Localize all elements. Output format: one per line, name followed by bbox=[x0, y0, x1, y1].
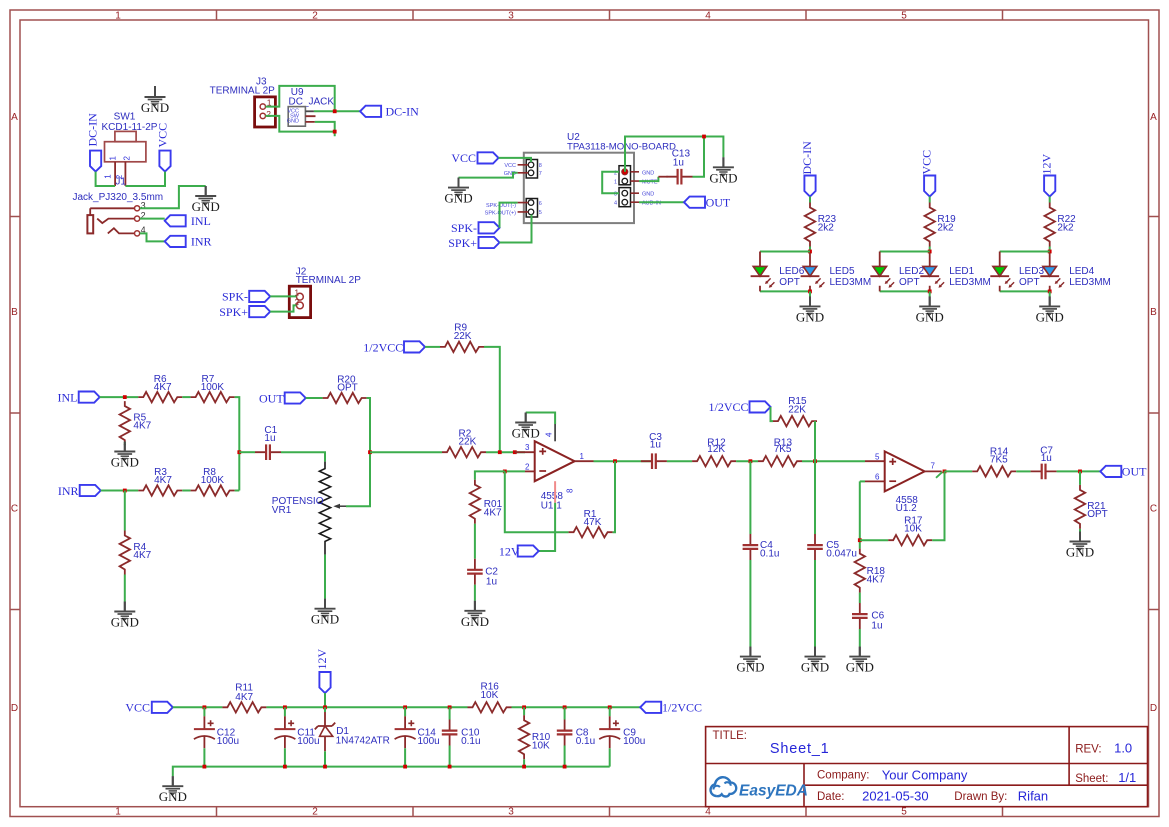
svg-text:2: 2 bbox=[266, 109, 271, 119]
ground GND (LED branch 3) bbox=[1036, 296, 1064, 324]
svg-text:INL: INL bbox=[191, 214, 211, 228]
wire LED parallel rails (branch 1) bbox=[760, 252, 810, 292]
potentiometer VR1 wiper arrow bbox=[333, 504, 346, 509]
svg-text:1: 1 bbox=[614, 180, 617, 186]
svg-text:1u: 1u bbox=[650, 440, 661, 451]
resistor R21 bbox=[1075, 485, 1108, 529]
LED leads (branch 1) bbox=[760, 252, 810, 292]
net flag OUT (feedback input) bbox=[259, 391, 306, 405]
op-amp U1.2 pin6 stub bbox=[865, 480, 885, 482]
svg-text:TERMINAL 2P: TERMINAL 2P bbox=[210, 86, 276, 97]
svg-text:100K: 100K bbox=[201, 382, 225, 393]
switch SW1 pin numbers 1 2 (rotated) bbox=[104, 174, 124, 179]
wire R21 to GND bbox=[1079, 529, 1081, 532]
svg-text:OPT: OPT bbox=[1019, 277, 1040, 288]
svg-text:REV:: REV: bbox=[1075, 743, 1101, 755]
connector U9 body bbox=[288, 107, 305, 127]
svg-text:LED4: LED4 bbox=[1069, 266, 1094, 277]
ground GND (U2 left) bbox=[444, 178, 472, 206]
resistor R6 bbox=[138, 374, 182, 403]
svg-text:4K7: 4K7 bbox=[133, 421, 151, 432]
svg-text:INR: INR bbox=[191, 235, 212, 249]
net flag OUT (U2 AUD-IN) bbox=[684, 195, 731, 209]
resistor R15 bbox=[773, 396, 817, 427]
svg-text:TERMINAL 2P: TERMINAL 2P bbox=[296, 275, 362, 286]
net flag INL bbox=[58, 390, 100, 404]
svg-text:GND: GND bbox=[287, 119, 299, 125]
LED LED6 (green) bbox=[751, 266, 805, 288]
svg-text:C: C bbox=[11, 504, 18, 515]
connector U9 pins bbox=[305, 110, 314, 112]
connector J2 pad 1 bbox=[297, 293, 304, 300]
svg-text:4K7: 4K7 bbox=[133, 550, 151, 561]
capacitor C3 bbox=[641, 432, 667, 469]
wire R3 to R8 bbox=[182, 490, 190, 492]
svg-text:B: B bbox=[1150, 307, 1157, 318]
svg-text:SPK+: SPK+ bbox=[219, 305, 248, 319]
wire C1 node to C1 bbox=[239, 451, 255, 453]
switch SW1 pins bbox=[115, 162, 125, 186]
svg-text:DC-IN: DC-IN bbox=[386, 105, 420, 119]
op-amp U1.2 pin numbers 5 6 7 bbox=[875, 452, 880, 481]
wire C2 to GND bbox=[474, 585, 476, 601]
wire C13 to top rail bbox=[693, 137, 705, 177]
wire LED node to GND (branch 1) bbox=[809, 291, 811, 296]
resistor R13 bbox=[758, 437, 802, 466]
ground GND (LED branch 1) bbox=[796, 296, 824, 324]
wire pin4 to GND bbox=[526, 413, 555, 425]
svg-text:7: 7 bbox=[931, 461, 936, 470]
capacitor C7 bbox=[1031, 445, 1057, 479]
ground GND (above SW1) bbox=[141, 86, 169, 115]
module U2 header pins 2/1 bbox=[619, 166, 631, 185]
net flag VCC (supply) bbox=[125, 701, 172, 715]
svg-text:2021-05-30: 2021-05-30 bbox=[862, 789, 929, 804]
wire pin8 to 12V bbox=[539, 503, 555, 551]
svg-text:U1.1: U1.1 bbox=[541, 500, 563, 511]
svg-text:1/2VCC: 1/2VCC bbox=[363, 340, 403, 354]
op-amp U1.1 pin1 stub bbox=[575, 460, 594, 462]
junction (U1.1 output node) bbox=[613, 459, 617, 463]
capacitor C8 bbox=[557, 707, 595, 747]
svg-text:22K: 22K bbox=[788, 405, 806, 416]
svg-text:2: 2 bbox=[312, 807, 318, 818]
svg-text:OPT: OPT bbox=[1087, 509, 1108, 520]
module U2 pin labels GND MUTE GND AUD-IN bbox=[642, 170, 661, 206]
svg-text:Rifan: Rifan bbox=[1018, 789, 1048, 804]
svg-text:VCC: VCC bbox=[451, 151, 476, 165]
resistor R14 bbox=[972, 447, 1016, 477]
jack J1 pin3 pad bbox=[135, 206, 140, 211]
zener diode D1 bbox=[315, 707, 390, 751]
net flag VCC (LED branch) bbox=[920, 150, 936, 197]
module U2 header pins 8/7 bbox=[518, 160, 538, 179]
svg-text:SPK-: SPK- bbox=[451, 221, 477, 235]
connector J3 pad 2 bbox=[260, 113, 265, 118]
svg-text:10K: 10K bbox=[481, 690, 499, 701]
net flag DC-IN (U9) bbox=[360, 105, 419, 119]
net flag SPK- (J2) bbox=[222, 290, 270, 304]
junction (LED3 top node) bbox=[1048, 250, 1052, 254]
capacitor C1 bbox=[255, 425, 281, 460]
net flag SPK+ (U2) bbox=[448, 236, 499, 250]
svg-text:OPT: OPT bbox=[779, 277, 800, 288]
module U2 body bbox=[524, 153, 634, 223]
svg-text:D: D bbox=[11, 703, 18, 714]
wire LED parallel rails (branch 2) bbox=[880, 252, 930, 292]
capacitor C4 bbox=[743, 534, 780, 560]
wire J3 pin1 to junction bbox=[266, 86, 335, 111]
capacitor C10 bbox=[442, 707, 481, 747]
wire U2 MUTE to C13 bbox=[639, 177, 658, 181]
net flag DC-IN (LED branch) bbox=[800, 141, 816, 197]
svg-text:2: 2 bbox=[123, 156, 132, 161]
wire R20 to wiper node bbox=[346, 398, 370, 506]
svg-text:8: 8 bbox=[539, 163, 542, 169]
svg-text:J1: J1 bbox=[115, 177, 126, 188]
svg-text:2: 2 bbox=[525, 462, 530, 471]
wire U2 AUD-IN to OUT flag bbox=[639, 201, 684, 203]
LED leads (branch 2) bbox=[880, 252, 930, 292]
svg-text:22K: 22K bbox=[454, 331, 472, 342]
resistor R8 bbox=[191, 467, 235, 495]
svg-text:12V: 12V bbox=[1040, 154, 1054, 175]
svg-text:TITLE:: TITLE: bbox=[713, 730, 748, 742]
op-amp U1.1 pin8 bbox=[554, 481, 556, 503]
wire output to R14 bbox=[945, 470, 973, 472]
ground GND (R4) bbox=[111, 602, 139, 630]
wire VCC to R19 bbox=[929, 197, 931, 203]
junction (INR node) bbox=[123, 489, 127, 493]
svg-text:10K: 10K bbox=[532, 741, 550, 752]
svg-text:LED3MM: LED3MM bbox=[830, 277, 872, 288]
capacitor C14 bbox=[395, 707, 440, 748]
svg-text:B: B bbox=[11, 307, 18, 318]
junction (U1.2 output node) bbox=[943, 470, 947, 474]
svg-text:OUT: OUT bbox=[259, 391, 284, 405]
EasyEDA logo bbox=[711, 777, 808, 799]
resistor R17 bbox=[888, 516, 932, 546]
ground GND (LED branch 2) bbox=[916, 296, 944, 324]
op-amp U1.1 pin2 stub bbox=[525, 470, 535, 472]
wire SPK+ to U2 pin5 bbox=[500, 215, 532, 243]
wire C6 to GND bbox=[859, 629, 861, 647]
junction (pin2 node) bbox=[503, 470, 507, 474]
svg-text:7: 7 bbox=[539, 171, 542, 177]
svg-text:GND: GND bbox=[642, 170, 654, 176]
ground GND (supply) bbox=[159, 776, 187, 804]
wire R6 to R7 bbox=[182, 396, 190, 398]
svg-text:VCC: VCC bbox=[156, 123, 170, 148]
net flag INL (jack) bbox=[165, 214, 211, 228]
wire C4 to GND bbox=[749, 560, 751, 647]
svg-text:1: 1 bbox=[104, 174, 113, 179]
wire C9 to bottom rail bbox=[609, 748, 611, 766]
wire R19 to LED node bbox=[929, 247, 931, 252]
svg-text:OPT: OPT bbox=[899, 277, 920, 288]
connector J3 pin numbers bbox=[266, 98, 272, 120]
svg-text:Jack_PJ320_3.5mm: Jack_PJ320_3.5mm bbox=[73, 192, 164, 203]
svg-text:0.1u: 0.1u bbox=[461, 736, 480, 747]
connector J2 pin numbers bbox=[294, 287, 299, 307]
svg-text:VR1: VR1 bbox=[272, 505, 292, 516]
resistor R3 bbox=[138, 467, 182, 495]
capacitor C5 bbox=[807, 534, 857, 560]
wire SW1 pin2 to VCC bbox=[125, 172, 165, 186]
svg-text:3: 3 bbox=[525, 443, 530, 452]
module U2 pin numbers 6 5 bbox=[539, 201, 542, 216]
junction (LED3 bottom node) bbox=[1048, 290, 1052, 294]
svg-text:VCC: VCC bbox=[125, 701, 150, 715]
svg-text:SW1: SW1 bbox=[114, 112, 136, 123]
wire node to R17 bbox=[860, 539, 888, 541]
wire R7 to C1 node bbox=[235, 397, 240, 490]
svg-text:DC-IN: DC-IN bbox=[86, 113, 100, 147]
resistor R11 bbox=[222, 683, 266, 713]
wire C12 to bottom rail bbox=[203, 748, 205, 766]
wire U9 GND pin bbox=[315, 122, 335, 132]
svg-text:D: D bbox=[1150, 703, 1157, 714]
svg-text:5: 5 bbox=[539, 210, 542, 216]
svg-text:1N4742ATR: 1N4742ATR bbox=[336, 736, 390, 747]
wire R14 to C7 bbox=[1016, 470, 1030, 472]
net flag OUT (final output) bbox=[1100, 465, 1147, 479]
svg-text:1u: 1u bbox=[1041, 453, 1052, 464]
svg-text:100u: 100u bbox=[297, 736, 319, 747]
junction (R9 / R2 node) bbox=[498, 450, 502, 454]
wire bottom rail bbox=[173, 767, 610, 777]
ground GND (U2 right) bbox=[709, 157, 737, 185]
svg-text:6: 6 bbox=[539, 201, 542, 207]
svg-text:LED3MM: LED3MM bbox=[949, 277, 991, 288]
junction (pin3 node) bbox=[513, 450, 517, 454]
op-amp U1.1 bbox=[535, 441, 575, 511]
resistor R20 bbox=[323, 375, 367, 403]
net flag 1/2VCC (supply) bbox=[640, 701, 702, 715]
wire C8 to bottom rail bbox=[564, 746, 566, 767]
connector J2 body bbox=[289, 286, 310, 317]
svg-text:2k2: 2k2 bbox=[937, 223, 954, 234]
op-amp U1.2 bbox=[885, 451, 925, 514]
svg-text:2k2: 2k2 bbox=[1057, 223, 1074, 234]
ground GND (C4) bbox=[736, 647, 764, 675]
wire LED node to GND (branch 3) bbox=[1049, 291, 1051, 296]
svg-text:2k2: 2k2 bbox=[818, 223, 835, 234]
svg-text:5: 5 bbox=[875, 452, 880, 461]
jack J1 tip contact pin2 bbox=[97, 219, 134, 224]
wire pin2 node to op-amp bbox=[505, 470, 525, 472]
LED leads (branch 3) bbox=[1000, 252, 1050, 292]
wire OUT to R20 bbox=[306, 397, 323, 399]
svg-text:1: 1 bbox=[115, 11, 121, 22]
op-amp U1.2 pin7 stub bbox=[925, 470, 942, 472]
svg-text:SPK+: SPK+ bbox=[448, 236, 477, 250]
wire LED node to GND (branch 2) bbox=[929, 291, 931, 296]
wire DC-IN to SW1 pin1 bbox=[96, 172, 116, 186]
wire U2 pin2 jumper to pin3 bbox=[602, 172, 619, 193]
junction (INL node) bbox=[123, 395, 127, 399]
LED LED5 (blue) bbox=[801, 266, 872, 288]
wire C4 node down bbox=[749, 461, 751, 534]
net flag DC-IN (at SW1) bbox=[86, 113, 102, 172]
wire LED parallel rails (branch 3) bbox=[1000, 252, 1050, 292]
net flag 1/2VCC (R9) bbox=[363, 340, 425, 354]
wire U9 VCC pin to DC-IN flag bbox=[314, 110, 360, 112]
svg-text:6: 6 bbox=[875, 473, 880, 482]
svg-text:2: 2 bbox=[312, 11, 318, 22]
module U2 right pin stubs bbox=[631, 172, 640, 202]
svg-text:Date:: Date: bbox=[817, 791, 845, 803]
junction (R2 input node) bbox=[368, 450, 372, 454]
wire DC-IN to R23 bbox=[809, 197, 811, 203]
svg-text:4K7: 4K7 bbox=[154, 475, 172, 486]
wire R23 to LED node bbox=[809, 247, 811, 252]
svg-text:INL: INL bbox=[58, 390, 78, 404]
wire D1 to bottom rail bbox=[324, 751, 326, 766]
ground GND (R21) bbox=[1066, 532, 1094, 560]
svg-text:4: 4 bbox=[614, 201, 617, 207]
net flag 12V (LED branch) bbox=[1040, 154, 1056, 197]
wire SPK- to U2 pin6 bbox=[500, 203, 518, 228]
svg-text:SPK-OUT(-): SPK-OUT(-) bbox=[486, 203, 516, 209]
module U2 pin labels SPK-OUT bbox=[485, 203, 516, 217]
module U2 pin labels VCC GND bbox=[504, 163, 516, 177]
svg-text:0.1u: 0.1u bbox=[576, 736, 595, 747]
capacitor C12 bbox=[194, 707, 239, 748]
resistor R10 bbox=[519, 707, 551, 759]
resistor R19 bbox=[925, 203, 957, 247]
ground GND (R5) bbox=[111, 442, 139, 470]
net flag 1/2VCC (R15) bbox=[708, 400, 770, 414]
svg-text:4: 4 bbox=[545, 432, 554, 437]
wire VR1 to GND bbox=[324, 555, 326, 599]
svg-text:8: 8 bbox=[566, 488, 575, 493]
ground GND (U1.1 pin4) bbox=[512, 413, 540, 441]
resistor R23 bbox=[805, 203, 837, 247]
svg-text:0.1u: 0.1u bbox=[760, 548, 779, 559]
svg-text:3: 3 bbox=[508, 807, 514, 818]
jack J1 sleeve and pin3 line bbox=[87, 208, 134, 233]
junction (LED1 bottom node) bbox=[808, 290, 812, 294]
svg-text:12V: 12V bbox=[315, 649, 329, 670]
op-amp U1.2 pin5 stub bbox=[865, 460, 885, 462]
op-amp U1.1 pin numbers 3 2 1 bbox=[525, 443, 530, 472]
svg-text:EasyEDA: EasyEDA bbox=[739, 783, 808, 800]
wire R1 to output node bbox=[613, 461, 615, 532]
wire 1/2VCC to R15 bbox=[771, 407, 774, 421]
wire pin6 node to op-amp bbox=[860, 480, 865, 482]
svg-text:1u: 1u bbox=[673, 158, 684, 169]
wire 12V to R22 bbox=[1049, 197, 1051, 203]
wire output node to R21 bbox=[1079, 471, 1081, 485]
net flag VCC (at SW1) bbox=[156, 123, 171, 172]
svg-text:VCC: VCC bbox=[920, 150, 934, 175]
capacitor C13 bbox=[667, 149, 693, 185]
wire INR to node bbox=[101, 490, 139, 492]
svg-text:VCC: VCC bbox=[504, 163, 516, 169]
junction (C5 node) bbox=[813, 459, 817, 463]
wire C10 to bottom rail bbox=[449, 746, 451, 767]
wire R13 to C5 node and U1.2 pin5 bbox=[802, 460, 865, 462]
svg-text:100u: 100u bbox=[217, 736, 239, 747]
jack J1 pin4 pad bbox=[135, 231, 140, 236]
wire R9 to pin3 node bbox=[484, 347, 500, 452]
svg-text:1: 1 bbox=[109, 156, 118, 161]
wire U2 pin7 to GND bbox=[459, 173, 518, 178]
ground GND (VR1) bbox=[311, 599, 339, 627]
svg-text:4K7: 4K7 bbox=[484, 508, 502, 519]
wire J3 pin2 to U9 GND bbox=[266, 116, 335, 136]
wire SPK- to J2 pin1 bbox=[270, 295, 296, 297]
svg-text:Your Company: Your Company bbox=[882, 767, 968, 782]
svg-text:7K5: 7K5 bbox=[990, 455, 1008, 466]
svg-text:OUT: OUT bbox=[1122, 465, 1147, 479]
module U2 pin numbers 8 7 bbox=[539, 163, 542, 177]
connector J3 body bbox=[255, 97, 276, 127]
jack J1 pin2 pad bbox=[135, 216, 140, 221]
junction (LED2 top node) bbox=[928, 250, 932, 254]
svg-text:5: 5 bbox=[901, 807, 907, 818]
svg-text:0.047u: 0.047u bbox=[826, 548, 857, 559]
svg-text:OUT: OUT bbox=[706, 195, 731, 209]
wire R2 to op-amp pin3 bbox=[486, 451, 525, 453]
capacitor C2 bbox=[467, 559, 498, 588]
svg-text:12V: 12V bbox=[499, 544, 520, 558]
resistor R01 bbox=[470, 471, 505, 523]
resistor R18 bbox=[855, 549, 886, 593]
capacitor C9 bbox=[599, 707, 645, 748]
net flag 12V (U1.1) bbox=[499, 544, 539, 558]
wire top rail middle bbox=[266, 706, 467, 708]
svg-text:4: 4 bbox=[705, 11, 711, 22]
resistor R1 bbox=[569, 509, 613, 538]
wire R22 to LED node bbox=[1049, 247, 1051, 252]
ground GND (C6) bbox=[846, 647, 874, 675]
capacitor C6 bbox=[852, 603, 885, 632]
svg-text:U1.2: U1.2 bbox=[896, 503, 918, 514]
wire pin7 kink bbox=[936, 472, 943, 478]
wire C5 to GND bbox=[814, 560, 816, 647]
svg-text:Sheet_1: Sheet_1 bbox=[770, 741, 830, 757]
svg-text:22K: 22K bbox=[459, 437, 477, 448]
net flag INR (jack) bbox=[165, 235, 212, 249]
resistor R4 bbox=[120, 531, 152, 575]
svg-text:A: A bbox=[11, 112, 18, 123]
connector U9 pin names bbox=[287, 109, 300, 125]
junction (LED1 top node) bbox=[808, 250, 812, 254]
net flag 12V (supply) bbox=[315, 649, 330, 694]
net flag SPK- (U2) bbox=[451, 221, 500, 235]
ground GND (jack) bbox=[192, 186, 220, 214]
junction (C1 node) bbox=[237, 450, 241, 454]
resistor R16 bbox=[468, 682, 512, 713]
ground GND (C5) bbox=[801, 647, 829, 675]
ground GND (C2) bbox=[461, 601, 489, 629]
wire VCC to U2 pin8 bbox=[499, 158, 532, 162]
connector J2 pad 2 bbox=[297, 302, 304, 309]
op-amp U1.1 pin3 stub bbox=[515, 451, 535, 453]
wire jack pin3 to GND bbox=[140, 186, 206, 208]
LED LED1 (blue) bbox=[920, 266, 991, 288]
wire top rail right bbox=[512, 706, 641, 708]
wire node to R2 bbox=[370, 451, 442, 453]
LED LED2 (green) bbox=[870, 266, 924, 288]
junction (LED2 bottom node) bbox=[928, 290, 932, 294]
wire R01 to C2 bbox=[474, 524, 476, 559]
wire jack pin2 to INL bbox=[140, 218, 165, 220]
wire R8 to C1 node bbox=[235, 490, 240, 492]
svg-text:7K5: 7K5 bbox=[774, 444, 792, 455]
